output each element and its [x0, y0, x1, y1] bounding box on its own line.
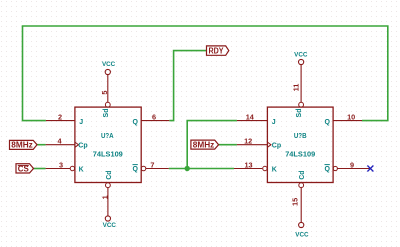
svg-text:74LS109: 74LS109 [285, 150, 315, 159]
svg-text:Cp: Cp [272, 142, 281, 149]
U7A pin 6 (Q) [133, 112, 170, 126]
svg-text:U?B: U?B [294, 131, 307, 140]
U7B pin 9 (Qbar, active low) [325, 160, 371, 173]
svg-text:K: K [79, 166, 84, 173]
U7B pin 10 (Q) [325, 112, 362, 126]
svg-text:VCC: VCC [295, 232, 309, 239]
power symbol VCC above U7A [102, 61, 116, 75]
global label 8MHz (right) [191, 140, 219, 149]
svg-text:8MHz: 8MHz [11, 141, 33, 150]
junction [185, 166, 190, 171]
U7B pin 13 (K, active low) [234, 160, 277, 173]
svg-text:74LS109: 74LS109 [93, 149, 123, 158]
svg-text:J: J [79, 119, 83, 126]
svg-text:7: 7 [150, 160, 154, 169]
U7B pin 14 (J) [237, 112, 276, 126]
U7A pin 4 (Cp, clock) [46, 137, 88, 150]
U7A pin 1 (Cd, active low, bottom) [100, 171, 113, 216]
U7B pin 11 (Sd, active low, top) [291, 65, 303, 118]
svg-text:Cd: Cd [299, 171, 306, 180]
svg-text:VCC: VCC [294, 52, 308, 59]
svg-text:6: 6 [152, 112, 156, 121]
svg-text:K: K [272, 166, 277, 173]
U7A pin 5 (Sd, active low, top) [100, 75, 110, 118]
U7B pin 12 (Cp, clock) [237, 137, 281, 150]
svg-text:15: 15 [291, 198, 300, 206]
U7A pin 3 (K, active low) [46, 160, 84, 173]
svg-text:RDY: RDY [209, 46, 225, 55]
global label RDY [207, 46, 229, 56]
wire 8MHz label to U7A Cp [37, 144, 46, 146]
no-connect flag on pin 9 [367, 166, 373, 172]
svg-text:8MHz: 8MHz [193, 140, 215, 149]
svg-text:2: 2 [58, 112, 62, 121]
svg-text:1: 1 [100, 195, 109, 199]
wire feedback loop from U7B Q to U7A J [23, 26, 388, 121]
svg-text:13: 13 [244, 160, 252, 169]
svg-text:Sd: Sd [296, 109, 303, 118]
global label 8MHz (left) [10, 140, 38, 149]
svg-text:VCC: VCC [102, 61, 116, 68]
svg-text:Q: Q [325, 166, 331, 173]
wire 8MHz label to U7B Cp [219, 144, 237, 146]
svg-text:Q: Q [133, 166, 139, 173]
svg-text:5: 5 [100, 91, 109, 95]
svg-text:Q: Q [325, 119, 331, 126]
flip-flop U7A body [75, 107, 141, 182]
svg-text:3: 3 [59, 160, 63, 169]
wire CS label to U7A K [34, 168, 46, 170]
svg-text:Cd: Cd [106, 171, 113, 180]
svg-text:9: 9 [350, 160, 354, 169]
global label CS (active low) [16, 164, 34, 174]
wire U7A Q to RDY label [169, 51, 206, 121]
U7A pin 2 (J) [46, 112, 83, 126]
U7B pin 15 (Cd, active low, bottom) [291, 171, 307, 223]
flip-flop U7B body [267, 107, 333, 182]
svg-text:VCC: VCC [103, 222, 117, 229]
wire junction to U7B J [187, 121, 237, 169]
svg-text:Cp: Cp [78, 142, 87, 149]
power symbol VCC below U7A [103, 216, 117, 229]
svg-text:Sd: Sd [103, 109, 110, 118]
U7A pin 7 (Qbar, active low) [133, 160, 169, 173]
svg-text:12: 12 [244, 137, 252, 146]
wire U7A Qbar to U7B K [169, 168, 234, 170]
svg-text:10: 10 [347, 112, 355, 121]
svg-text:14: 14 [246, 112, 255, 121]
svg-text:U?A: U?A [101, 131, 114, 140]
svg-text:11: 11 [291, 84, 300, 92]
power symbol VCC below U7B [295, 222, 309, 238]
svg-text:CS: CS [18, 165, 30, 174]
power symbol VCC above U7B [294, 52, 308, 65]
svg-text:J: J [272, 119, 276, 126]
svg-text:Q: Q [133, 119, 139, 126]
